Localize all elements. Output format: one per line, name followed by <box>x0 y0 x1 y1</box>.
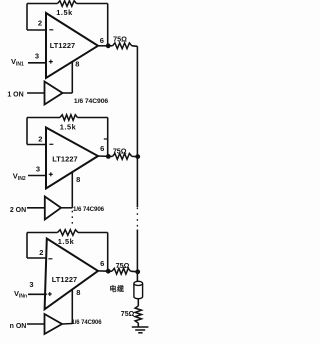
svg-text:1.5k: 1.5k <box>60 123 77 132</box>
svg-text:2 ON: 2 ON <box>10 207 26 214</box>
svg-text:75Ω: 75Ω <box>113 34 127 43</box>
svg-text:75Ω: 75Ω <box>113 146 127 155</box>
svg-text:2: 2 <box>39 248 43 257</box>
svg-text:3: 3 <box>36 164 40 173</box>
svg-text:6: 6 <box>100 36 104 45</box>
svg-text:6: 6 <box>100 144 104 153</box>
svg-text:2: 2 <box>38 18 42 27</box>
svg-text:1.5k: 1.5k <box>58 237 75 246</box>
svg-text:3: 3 <box>29 280 33 289</box>
svg-text:8: 8 <box>76 175 80 184</box>
svg-text:1 ON: 1 ON <box>7 92 23 99</box>
svg-text:电缆: 电缆 <box>110 284 125 293</box>
svg-text:1/6 74C906: 1/6 74C906 <box>74 98 108 105</box>
svg-text:1/6 74C906: 1/6 74C906 <box>73 206 105 213</box>
svg-text:1/6 74C906: 1/6 74C906 <box>71 320 102 326</box>
svg-text:8: 8 <box>76 288 80 297</box>
svg-text:2: 2 <box>38 134 42 143</box>
svg-text:LT1227: LT1227 <box>52 155 78 164</box>
svg-text:8: 8 <box>75 59 79 68</box>
svg-text:LT1227: LT1227 <box>50 41 76 50</box>
svg-text:75Ω: 75Ω <box>116 261 130 270</box>
svg-text:1.5k: 1.5k <box>56 8 73 17</box>
svg-text:75Ω: 75Ω <box>121 311 135 318</box>
svg-text:3: 3 <box>35 51 39 60</box>
svg-text:n ON: n ON <box>10 323 27 330</box>
svg-text:LT1227: LT1227 <box>52 275 78 284</box>
svg-text:6: 6 <box>100 259 104 268</box>
